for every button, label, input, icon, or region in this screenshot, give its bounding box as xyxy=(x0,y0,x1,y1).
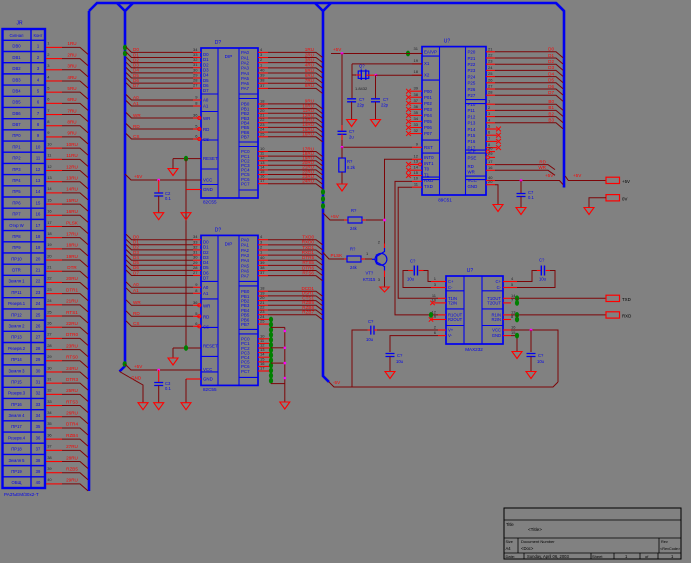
U1 right pin PA7 wire to bus xyxy=(258,87,268,89)
svg-text:22p: 22p xyxy=(381,103,389,108)
svg-text:7RU: 7RU xyxy=(67,108,76,113)
svg-text:P26: P26 xyxy=(468,87,476,92)
svg-text:D6: D6 xyxy=(548,84,554,89)
vertical wire joining U1/U2 RESET xyxy=(185,159,187,348)
svg-text:EA/VP: EA/VP xyxy=(424,50,437,55)
svg-text:34: 34 xyxy=(47,410,52,415)
U2 right pin PA5 wire to bus xyxy=(258,264,268,266)
svg-text:VCC: VCC xyxy=(203,367,212,372)
U4 R1OUT wire with junction dot xyxy=(438,314,446,316)
svg-text:Резерв.4: Резерв.4 xyxy=(8,435,26,440)
svg-text:32: 32 xyxy=(47,388,52,393)
wire net 22RU from JR pin 26 to bus xyxy=(46,326,62,328)
U1 left pin D1 (pin 33) wire from bus xyxy=(126,52,193,58)
wire net 28RU from JR pin 38 to bus xyxy=(46,461,62,463)
svg-text:U?: U? xyxy=(467,268,474,274)
svg-text:15: 15 xyxy=(414,170,419,175)
U4 R2OUT stub with no-connect x xyxy=(432,319,446,321)
svg-text:PC7: PC7 xyxy=(241,181,250,186)
svg-text:6RU: 6RU xyxy=(67,97,76,102)
svg-text:1.8432: 1.8432 xyxy=(355,86,368,91)
U3 TXD pin wire to MAX232 T1IN xyxy=(412,186,422,188)
connector JR row 26 cell (Земля 2) xyxy=(3,330,46,332)
U2 CS inversion bubble xyxy=(198,325,201,328)
connector JR row 31 cell (ПР15) xyxy=(3,386,46,388)
svg-text:17: 17 xyxy=(488,159,493,164)
svg-text:INT1: INT1 xyxy=(424,161,434,166)
U2 left pin D1 (pin 33) wire from bus xyxy=(126,239,193,245)
svg-text:26: 26 xyxy=(36,324,41,329)
svg-text:P12: P12 xyxy=(468,114,476,119)
svg-text:PA7: PA7 xyxy=(241,274,250,279)
wire net 3RU from JR pin 3 to bus xyxy=(46,69,62,71)
svg-text:Земля 4: Земля 4 xyxy=(9,413,26,418)
wire net 11RU from JR pin 11 to bus xyxy=(46,158,62,160)
capacitor C3 at U2 xyxy=(158,370,160,383)
svg-text:GND: GND xyxy=(492,333,501,338)
R3 ground xyxy=(337,184,347,191)
svg-text:WR: WR xyxy=(133,300,141,305)
U1 right pin PA5 wire to bus xyxy=(258,77,268,79)
svg-text:18RU: 18RU xyxy=(66,243,78,248)
wire port 0V to ground xyxy=(589,198,606,208)
svg-text:V-: V- xyxy=(448,333,453,338)
svg-text:8RU: 8RU xyxy=(67,120,76,125)
svg-text:16RU: 16RU xyxy=(66,209,78,214)
junction dot reset node xyxy=(341,146,344,149)
svg-text:ПР10: ПР10 xyxy=(11,256,22,261)
svg-text:26: 26 xyxy=(47,321,52,326)
svg-text:26RU: 26RU xyxy=(66,411,78,416)
svg-text:CS: CS xyxy=(203,324,209,329)
U1 right pin PB3 wire xyxy=(258,117,268,119)
svg-text:39: 39 xyxy=(47,466,52,471)
svg-text:1RU: 1RU xyxy=(67,41,76,46)
connector JR row 10 cell (ПР1) xyxy=(3,151,46,153)
IC D? inner dividers xyxy=(217,235,219,385)
connector JR row 33 cell (ПР16) xyxy=(3,409,46,411)
svg-text:40: 40 xyxy=(36,480,41,485)
crystal right lead / X2 wire xyxy=(366,74,376,76)
svg-text:D4: D4 xyxy=(548,71,554,76)
U1 right pin PB5 wire xyxy=(258,126,268,128)
svg-text:WR: WR xyxy=(468,170,475,175)
wire net 21RU from JR pin 24 to bus xyxy=(46,304,62,306)
svg-text:22: 22 xyxy=(47,276,52,281)
svg-text:Sheet: Sheet xyxy=(592,554,603,559)
svg-text:28: 28 xyxy=(488,90,493,95)
connector JR row 38 cell (Земля 5) xyxy=(3,465,46,467)
svg-text:28: 28 xyxy=(47,343,52,348)
U3 P0 port pins with no-connect marks xyxy=(410,90,422,92)
svg-text:INT0: INT0 xyxy=(424,155,434,160)
U1 VCC wire +5V from bus xyxy=(125,174,201,180)
wire net RZB4 from JR pin 36 to bus xyxy=(46,438,62,440)
svg-text:C?: C? xyxy=(349,129,355,134)
U1 right pin PB7 wire xyxy=(258,136,268,138)
svg-text:18: 18 xyxy=(47,231,52,236)
U4 charge cap C8 left xyxy=(431,281,446,283)
connector JR row 36 cell (Резерв.4) xyxy=(3,442,46,444)
svg-text:A1: A1 xyxy=(133,101,139,106)
svg-text:14: 14 xyxy=(36,189,41,194)
svg-text:RESET: RESET xyxy=(203,343,218,348)
svg-text:CS: CS xyxy=(203,137,209,142)
svg-text:RTS0: RTS0 xyxy=(66,355,78,360)
connector JR row 40 cell (ОБЩ) xyxy=(3,487,46,489)
U3 P2 port wires to bus xyxy=(486,51,495,53)
connector JR row 35 cell (ПР17) xyxy=(3,431,46,433)
connector JR row 37 cell (ПР18) xyxy=(3,453,46,455)
resistor R2 base from bus xyxy=(323,253,344,260)
wire net 9RU from JR pin 9 to bus xyxy=(46,136,62,138)
svg-text:89C51: 89C51 xyxy=(438,198,452,203)
svg-text:82C55: 82C55 xyxy=(203,387,217,392)
svg-text:P10: P10 xyxy=(468,102,476,107)
connector JR row 5 cell (DB4) xyxy=(3,95,46,97)
svg-text:2RU: 2RU xyxy=(67,52,76,57)
port RXD xyxy=(606,312,620,318)
bus: vertical bus right of U1/U2 (port A/B/C nets) xyxy=(315,3,329,382)
svg-text:RD: RD xyxy=(203,127,209,132)
reset capacitor C4 xyxy=(341,54,343,126)
svg-text:16: 16 xyxy=(488,165,493,170)
connector JR row 29 cell (ПР14) xyxy=(3,364,46,366)
svg-text:21RU: 21RU xyxy=(66,299,78,304)
U2 right pin PB6 stub to ground chain xyxy=(258,318,271,320)
svg-text:Date:: Date: xyxy=(506,554,516,559)
svg-text:23: 23 xyxy=(36,290,41,295)
svg-text:PSE: PSE xyxy=(468,156,477,161)
svg-text:R?: R? xyxy=(350,247,356,252)
wire net 15RU from JR pin 15 to bus xyxy=(46,203,62,205)
bus: top horizontal bus xyxy=(89,3,564,11)
svg-text:DIP: DIP xyxy=(225,241,233,246)
U1 left pin WR (pin 36) wire from bus xyxy=(126,113,193,119)
svg-text:ПР6: ПР6 xyxy=(12,200,21,205)
svg-text:Конт: Конт xyxy=(34,33,43,38)
svg-text:DTR: DTR xyxy=(67,265,77,270)
svg-text:22: 22 xyxy=(488,53,493,58)
connector JR column divider xyxy=(30,29,32,488)
svg-text:ПР12: ПР12 xyxy=(11,312,22,317)
connector JR row 11 cell (ПР2) xyxy=(3,162,46,164)
svg-text:27: 27 xyxy=(36,335,41,340)
connector JR row 14 cell (ПР5) xyxy=(3,196,46,198)
svg-text:0V: 0V xyxy=(622,197,627,202)
svg-text:0.1: 0.1 xyxy=(528,195,534,200)
svg-text:JR: JR xyxy=(16,21,23,27)
U2 left pin RD (pin 5) wire from bus xyxy=(126,311,193,317)
connector JR row 19 cell (ПР9) xyxy=(3,252,46,254)
U1 right pin PA0 wire to bus xyxy=(258,51,268,53)
port TXD xyxy=(606,295,620,301)
svg-text:P27: P27 xyxy=(468,93,476,98)
IC D? inner dividers xyxy=(217,48,219,198)
U1 right pin PB4 wire xyxy=(258,122,268,124)
U1 right pin PC2 wire to bus xyxy=(258,160,268,162)
connector JR row 6 cell (DB5) xyxy=(3,106,46,108)
U4 T2IN stub with no-connect x xyxy=(434,302,446,304)
wire net 25RU from JR pin 32 to bus xyxy=(46,393,62,395)
wire net 4RU from JR pin 4 to bus xyxy=(46,80,62,82)
svg-text:PA7: PA7 xyxy=(241,86,250,91)
U1 right pin PB0 wire xyxy=(258,103,268,105)
U2 RD inversion bubble xyxy=(198,315,201,318)
svg-text:P14: P14 xyxy=(468,127,476,132)
wire net 19RU from JR pin 20 to bus xyxy=(46,259,62,261)
svg-text:36: 36 xyxy=(193,113,198,118)
svg-text:A1: A1 xyxy=(203,291,209,296)
svg-text:ПР3: ПР3 xyxy=(12,167,21,172)
U1 left pin RD (pin 5) wire from bus xyxy=(126,124,193,130)
decoupling capacitor C7 on +5V xyxy=(520,179,523,182)
svg-text:DB2: DB2 xyxy=(12,66,21,71)
connector JR row 17 cell (Откр W) xyxy=(3,230,46,232)
svg-text:16: 16 xyxy=(511,325,516,330)
svg-text:VCC: VCC xyxy=(203,178,212,183)
svg-text:R2OUT: R2OUT xyxy=(448,317,463,322)
wire net 16RU from JR pin 16 to bus xyxy=(46,214,62,216)
wire net 10RU from JR pin 10 to bus xyxy=(46,147,62,149)
bus: vertical bus right of U3 xyxy=(556,3,564,188)
svg-text:24RU: 24RU xyxy=(302,179,314,184)
svg-text:+5V: +5V xyxy=(134,174,143,179)
U4 GND pin to ground xyxy=(503,335,511,337)
svg-text:Title: Title xyxy=(506,522,514,527)
svg-text:32: 32 xyxy=(36,391,41,396)
svg-text:33: 33 xyxy=(414,122,419,127)
U3 GND pin wire to ground xyxy=(486,184,495,186)
svg-text:24RU: 24RU xyxy=(66,366,78,371)
svg-text:13RU: 13RU xyxy=(66,176,78,181)
svg-text:20: 20 xyxy=(47,253,52,258)
U1 right pin PB2 wire xyxy=(258,112,268,114)
svg-text:RTS3: RTS3 xyxy=(66,399,78,404)
svg-text:39: 39 xyxy=(36,469,41,474)
U2 port C ground xyxy=(280,402,290,409)
wire net 20RU from JR pin 22 to bus xyxy=(46,281,62,283)
svg-text:DTR0: DTR0 xyxy=(66,332,78,337)
U1 left pin D0 (pin 34) wire from bus xyxy=(126,47,193,53)
wire net PLSK from JR pin 17 to bus xyxy=(46,225,62,227)
connector JR row 7 cell (DB6) xyxy=(3,118,46,120)
junction dots on bus x=323 xyxy=(321,189,325,195)
svg-text:RD: RD xyxy=(539,159,546,164)
U4 inner dividers xyxy=(463,276,465,344)
svg-text:P04: P04 xyxy=(424,113,432,118)
U1 right pin PA3 wire to bus xyxy=(258,67,268,69)
wire net 8RU from JR pin 8 to bus xyxy=(46,125,62,127)
svg-text:RESET: RESET xyxy=(203,156,218,161)
svg-text:18: 18 xyxy=(414,69,419,74)
svg-text:C?: C? xyxy=(538,353,544,358)
svg-text:C?: C? xyxy=(359,97,365,102)
svg-text:30: 30 xyxy=(488,145,493,150)
U2 left pin D5 (pin 29) wire from bus xyxy=(126,260,193,266)
connector JR row 3 cell (DB2) xyxy=(3,73,46,75)
svg-text:31: 31 xyxy=(36,379,41,384)
svg-text:P15: P15 xyxy=(468,133,476,138)
wire net DTR4 from JR pin 35 to bus xyxy=(46,427,62,429)
U2 right pin PB5 wire xyxy=(258,314,268,316)
connector JR row 28 cell (Резерв.2) xyxy=(3,353,46,355)
svg-text:P07: P07 xyxy=(424,131,432,136)
svg-text:DB4: DB4 xyxy=(12,88,21,93)
svg-text:PLSK: PLSK xyxy=(331,253,344,258)
U2 left pin A0 (pin 9) wire from bus xyxy=(126,282,193,288)
svg-text:13: 13 xyxy=(36,178,41,183)
U3 INT0 pin wire to transistor collector xyxy=(412,158,422,160)
IC U3 (89C51 MCU) body xyxy=(422,47,486,195)
svg-text:PB7: PB7 xyxy=(241,135,250,140)
svg-text:Document Number: Document Number xyxy=(521,539,555,544)
svg-text:A4: A4 xyxy=(505,546,511,551)
svg-text:ПР9: ПР9 xyxy=(12,245,21,250)
svg-text:21: 21 xyxy=(47,265,52,270)
svg-text:P11: P11 xyxy=(468,108,476,113)
resistor R1 to +5V from bus xyxy=(323,213,344,220)
svg-text:14: 14 xyxy=(414,165,419,170)
wire net 24RU from JR pin 30 to bus xyxy=(46,371,62,373)
U2 right pin PB7 stub to ground chain xyxy=(258,323,271,325)
svg-text:82C55: 82C55 xyxy=(203,200,217,205)
svg-text:12: 12 xyxy=(36,167,41,172)
U4 VCC wire xyxy=(503,329,511,331)
svg-text:RTS1: RTS1 xyxy=(66,310,78,315)
svg-text:ПР5: ПР5 xyxy=(12,189,21,194)
U3 ALE PSEN pins with bubbles xyxy=(486,150,489,153)
svg-text:0.1: 0.1 xyxy=(165,196,171,201)
svg-text:DTR3: DTR3 xyxy=(66,377,78,382)
svg-text:ПР4: ПР4 xyxy=(12,178,21,183)
connector JR row 9 cell (ПР0) xyxy=(3,140,46,142)
U2 right pin PC0 stub to ground chain xyxy=(258,338,271,340)
U1 WR inversion bubble xyxy=(198,116,201,119)
svg-text:23: 23 xyxy=(47,287,52,292)
svg-text:35: 35 xyxy=(414,110,419,115)
svg-text:B2: B2 xyxy=(548,111,554,116)
U2 VCC wire +5V from bus xyxy=(123,361,127,367)
svg-text:35: 35 xyxy=(36,424,41,429)
svg-text:38: 38 xyxy=(36,458,41,463)
svg-text:D2: D2 xyxy=(548,59,554,64)
U1 GND pin wire xyxy=(186,189,201,191)
svg-text:22p: 22p xyxy=(357,103,365,108)
U1 right pin PC1 wire to bus xyxy=(258,155,268,157)
U1 left pin D4 (pin 30) wire from bus xyxy=(126,67,193,73)
svg-text:27: 27 xyxy=(193,270,198,275)
svg-text:DB0: DB0 xyxy=(12,44,21,49)
svg-text:B0: B0 xyxy=(548,99,554,104)
U1 left pin CS (pin 6) wire from bus xyxy=(126,134,193,140)
svg-text:D7: D7 xyxy=(133,83,139,88)
svg-text:15: 15 xyxy=(47,197,52,202)
connector JR row 25 cell (ПР12) xyxy=(3,319,46,321)
wire net RTS0 from JR pin 29 to bus xyxy=(46,360,62,362)
svg-text:16: 16 xyxy=(47,209,52,214)
IC D? (82C55 PPI) body xyxy=(201,235,258,385)
svg-text:P23: P23 xyxy=(468,68,476,73)
bus GND ground symbol xyxy=(138,403,148,410)
svg-text:ALE: ALE xyxy=(468,150,476,155)
junction dots on bus x=125 xyxy=(123,45,127,51)
svg-text:20: 20 xyxy=(488,179,493,184)
U2 left pin D2 (pin 32) wire from bus xyxy=(126,244,193,250)
U4 T2OUT stub xyxy=(503,302,511,304)
VT1 collector stub and pin 2 xyxy=(384,244,386,249)
svg-text:DB6: DB6 xyxy=(12,111,21,116)
svg-text:RD: RD xyxy=(133,124,140,129)
U1 right pin PB1 wire xyxy=(258,108,268,110)
svg-text:DTR4: DTR4 xyxy=(66,422,78,427)
connector JR row 30 cell (Земля 3) xyxy=(3,375,46,377)
svg-text:D3: D3 xyxy=(548,65,554,70)
svg-text:22: 22 xyxy=(36,279,41,284)
wire net 12RU from JR pin 12 to bus xyxy=(46,170,62,172)
crystal left lead / X1 wire xyxy=(355,74,361,76)
svg-text:38: 38 xyxy=(414,92,419,97)
connector JR row 12 cell (ПР3) xyxy=(3,174,46,176)
svg-text:RZB5: RZB5 xyxy=(66,467,78,472)
svg-text:Sunday, April 06, 2003: Sunday, April 06, 2003 xyxy=(527,554,569,559)
U1 left pin D2 (pin 32) wire from bus xyxy=(126,57,193,63)
U1 right pin PB6 wire xyxy=(258,131,268,133)
svg-text:+5V: +5V xyxy=(573,173,582,178)
wire net 18RU from JR pin 19 to bus xyxy=(46,248,62,250)
svg-text:C-: C- xyxy=(448,285,453,290)
junction dot C4 branch xyxy=(341,52,344,55)
svg-text:10u: 10u xyxy=(539,277,547,282)
svg-text:A0: A0 xyxy=(133,95,139,100)
svg-text:24k: 24k xyxy=(350,265,358,270)
connector JR row 20 cell (ПР10) xyxy=(3,263,46,265)
IC D? (82C55 PPI) body xyxy=(201,48,258,198)
U1 right pin PC4 wire to bus xyxy=(258,169,268,171)
svg-text:29: 29 xyxy=(47,354,52,359)
U1 right pin PC7 wire to bus xyxy=(258,183,268,185)
svg-text:37: 37 xyxy=(260,83,265,88)
svg-text:+5V: +5V xyxy=(622,179,630,184)
wire net RTS3 from JR pin 33 to bus xyxy=(46,405,62,407)
U1 left pin D6 (pin 28) wire from bus xyxy=(126,78,193,84)
capacitor C2 at U1 xyxy=(158,180,160,193)
U2 right pin PA4 wire to bus xyxy=(258,259,268,261)
svg-text:10RU: 10RU xyxy=(66,142,78,147)
wire net 5RU from JR pin 5 to bus xyxy=(46,91,62,93)
svg-text:27: 27 xyxy=(47,332,52,337)
svg-text:10: 10 xyxy=(47,141,52,146)
svg-text:PC7: PC7 xyxy=(241,369,250,374)
connector JR row 16 cell (ПР7) xyxy=(3,218,46,220)
svg-text:25RU: 25RU xyxy=(66,388,78,393)
U2 right pin PA6 wire to bus xyxy=(258,270,268,272)
reset resistor R3 xyxy=(339,158,346,172)
svg-text:C?: C? xyxy=(383,97,389,102)
wire net RZB5 from JR pin 39 to bus xyxy=(46,472,62,474)
connector JR row 24 cell (Резерв.1) xyxy=(3,308,46,310)
svg-text:T2IN: T2IN xyxy=(448,301,457,306)
connector JR row 27 cell (ПР13) xyxy=(3,341,46,343)
transistor VT1 xyxy=(375,253,387,265)
svg-text:DTR1: DTR1 xyxy=(66,287,78,292)
svg-text:17: 17 xyxy=(260,366,265,371)
svg-text:24: 24 xyxy=(47,298,52,303)
svg-text:<Title>: <Title> xyxy=(528,527,542,532)
svg-text:P22: P22 xyxy=(468,62,476,67)
svg-text:+5V: +5V xyxy=(545,173,554,178)
-5V supply line xyxy=(329,382,558,387)
